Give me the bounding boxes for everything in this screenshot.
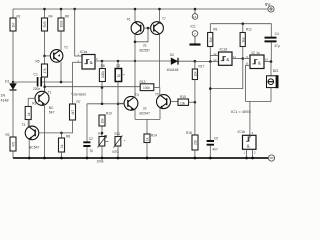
node IC1b pins rail bbox=[245, 157, 248, 160]
resistor R2 bbox=[6, 133, 17, 158]
svg-text:R5: R5 bbox=[36, 60, 40, 64]
svg-text:10k: 10k bbox=[180, 102, 186, 106]
wire mirror base to T6 collector bbox=[135, 28, 148, 42]
resistor R14 bbox=[144, 134, 157, 159]
wire buzzer return to IC1b bbox=[246, 101, 272, 103]
transistor T3 bbox=[25, 120, 61, 159]
svg-text:&: & bbox=[226, 57, 229, 62]
wire T4 base wire bbox=[87, 103, 124, 105]
node T1 collector feedback junction bbox=[43, 85, 46, 88]
svg-text:NTC: NTC bbox=[112, 150, 119, 154]
svg-text:10k: 10k bbox=[101, 118, 105, 124]
resistor R1 bbox=[10, 9, 21, 82]
svg-text:2x: 2x bbox=[143, 44, 147, 48]
op-amp gate IC1a bbox=[73, 50, 99, 69]
svg-text:R10: R10 bbox=[106, 112, 112, 116]
node R16 col T4 base bbox=[101, 103, 104, 106]
diode D2 bbox=[167, 53, 195, 72]
capacitor C4 bbox=[265, 32, 280, 62]
potentiometer P1 bbox=[97, 132, 109, 163]
resistor R10 bbox=[99, 112, 112, 137]
svg-text:C2: C2 bbox=[89, 137, 93, 141]
resistor R6 bbox=[58, 8, 69, 47]
svg-text:C3: C3 bbox=[116, 64, 120, 68]
wire feedback T1 collector to R13 bbox=[45, 86, 141, 88]
node R14 rail bbox=[146, 157, 149, 160]
node R16 feedback junction bbox=[101, 86, 104, 89]
svg-text:100k: 100k bbox=[97, 159, 104, 163]
wire top supply rail bbox=[13, 8, 268, 10]
node R8 on rail bbox=[60, 157, 63, 160]
wire C2 drop bbox=[86, 104, 88, 142]
buzzer BZ1 bbox=[267, 62, 279, 102]
svg-text:R14: R14 bbox=[151, 134, 157, 138]
wire bottom ground rail bbox=[13, 157, 268, 159]
svg-text:&: & bbox=[247, 144, 250, 149]
svg-text:C1: C1 bbox=[34, 73, 38, 77]
wire R9 column down bbox=[209, 62, 211, 141]
svg-text:4k7: 4k7 bbox=[71, 110, 75, 115]
svg-text:R9: R9 bbox=[213, 28, 217, 32]
capacitor C3 electrolytic bbox=[115, 60, 126, 136]
node T3 emitter on rail bbox=[28, 157, 31, 160]
transistor T4 bbox=[118, 96, 138, 119]
resistor R10b bbox=[240, 24, 252, 59]
transistor T1 bbox=[28, 77, 49, 158]
svg-text:C5: C5 bbox=[214, 137, 218, 141]
svg-text:47k: 47k bbox=[43, 68, 47, 74]
svg-text:BC547: BC547 bbox=[29, 146, 39, 150]
svg-text:BC: BC bbox=[49, 106, 54, 110]
svg-text:9V: 9V bbox=[265, 2, 270, 7]
svg-text:T5: T5 bbox=[155, 93, 159, 97]
svg-text:D2: D2 bbox=[170, 53, 174, 57]
gate IC1d bbox=[195, 48, 243, 66]
svg-text:T3: T3 bbox=[22, 123, 26, 127]
node column y88.6 bbox=[209, 87, 212, 90]
resistor R4 bbox=[42, 8, 53, 56]
svg-text:R11: R11 bbox=[115, 132, 121, 136]
svg-text:1k: 1k bbox=[146, 137, 150, 141]
svg-text:1M: 1M bbox=[12, 23, 16, 28]
svg-text:100k: 100k bbox=[101, 71, 105, 78]
svg-text:3M3: 3M3 bbox=[43, 21, 47, 27]
node T2 collector junction bbox=[60, 81, 63, 84]
svg-text:IC1: IC1 bbox=[191, 25, 196, 29]
svg-text:R6: R6 bbox=[65, 15, 69, 19]
node T6 collector diode junction bbox=[134, 41, 137, 44]
resistor R18 bbox=[186, 102, 198, 158]
node T6 T7 base junction bbox=[147, 27, 150, 30]
svg-text:1N: 1N bbox=[1, 94, 6, 98]
node P1 rail bbox=[101, 157, 104, 160]
wire supply feed R9 R10 C4 bbox=[210, 24, 271, 37]
node C2 rail bbox=[86, 157, 89, 160]
svg-text:14: 14 bbox=[193, 15, 197, 19]
svg-text:C4: C4 bbox=[275, 32, 279, 36]
node 0V terminal bbox=[268, 155, 274, 161]
svg-text:R12: R12 bbox=[246, 28, 252, 32]
resistor R7 bbox=[62, 62, 81, 133]
svg-text:R15: R15 bbox=[180, 95, 186, 99]
svg-text:R17: R17 bbox=[199, 65, 205, 69]
svg-text:47µ: 47µ bbox=[274, 44, 280, 48]
resistor R13 bbox=[140, 80, 160, 91]
capacitor C1 bbox=[13, 73, 73, 92]
svg-text:22k: 22k bbox=[194, 139, 198, 145]
svg-text:BC547: BC547 bbox=[140, 112, 150, 116]
node R10 top bbox=[242, 22, 245, 25]
svg-text:12: 12 bbox=[213, 52, 217, 56]
svg-text:4148: 4148 bbox=[1, 99, 9, 103]
svg-text:P1: P1 bbox=[98, 132, 102, 136]
node T1 emitter on rail bbox=[43, 157, 46, 160]
svg-text:IC1d: IC1d bbox=[220, 48, 228, 52]
svg-text:470: 470 bbox=[12, 141, 16, 147]
resistor R17 bbox=[192, 61, 204, 102]
transistor T6 bbox=[131, 9, 148, 97]
diode D1 bbox=[1, 80, 17, 138]
svg-text:R2: R2 bbox=[6, 133, 10, 137]
svg-text:BZ1: BZ1 bbox=[273, 69, 279, 73]
node 9V terminal bbox=[268, 6, 274, 12]
wire IC1a output net bbox=[95, 60, 171, 62]
wire T1 base to R3 bbox=[27, 98, 29, 106]
svg-text:T2: T2 bbox=[64, 46, 68, 50]
svg-text:547: 547 bbox=[49, 111, 55, 115]
node output feedback junction bbox=[242, 57, 245, 60]
wire T4 T5 emitters bbox=[135, 119, 160, 133]
svg-text:T6: T6 bbox=[127, 18, 131, 22]
resistor R5 bbox=[36, 55, 48, 92]
node pin13 junction bbox=[209, 60, 212, 63]
svg-text:1k: 1k bbox=[60, 144, 64, 148]
resistor R8 bbox=[59, 133, 71, 158]
svg-text:13: 13 bbox=[213, 58, 217, 62]
node R18 rail bbox=[194, 157, 197, 160]
gate IC1b bbox=[238, 130, 257, 158]
svg-text:BC557: BC557 bbox=[140, 49, 150, 53]
svg-text:1N4148: 1N4148 bbox=[167, 68, 179, 72]
svg-text:IC1 = 4093: IC1 = 4093 bbox=[231, 109, 251, 114]
svg-text:R8: R8 bbox=[66, 135, 70, 139]
svg-text:10: 10 bbox=[265, 57, 269, 61]
node T6 column signal wire junction bbox=[134, 60, 136, 62]
resistor R15 bbox=[178, 95, 195, 106]
svg-text:3k9: 3k9 bbox=[209, 37, 213, 42]
svg-text:1k: 1k bbox=[27, 112, 31, 116]
svg-text:11: 11 bbox=[233, 55, 236, 59]
gate IC1c bbox=[243, 51, 271, 101]
resistor R9 bbox=[208, 24, 218, 62]
resistor R3 bbox=[25, 102, 36, 127]
transistor T7 bbox=[148, 9, 163, 87]
node R11 rail bbox=[117, 157, 120, 160]
node C3 T4 base junction bbox=[117, 103, 120, 106]
svg-text:&: & bbox=[258, 60, 261, 65]
node R7R8 junction bbox=[60, 132, 63, 135]
node IC1c out C4 bbox=[270, 60, 273, 63]
transistor T5 bbox=[157, 87, 179, 119]
capacitor C2 bbox=[83, 137, 93, 158]
svg-text:R4: R4 bbox=[49, 15, 53, 19]
svg-text:1µ: 1µ bbox=[90, 149, 94, 153]
thermistor R11 bbox=[112, 132, 126, 158]
capacitor C5 bbox=[207, 137, 219, 159]
node R17 R15 junction bbox=[194, 101, 197, 104]
svg-text:10k: 10k bbox=[194, 71, 198, 77]
wire output feedback to column bbox=[210, 59, 243, 89]
svg-text:T1: T1 bbox=[48, 91, 52, 95]
svg-text:IC1b: IC1b bbox=[238, 130, 246, 134]
svg-text:T7: T7 bbox=[162, 17, 166, 21]
svg-text:1µ: 1µ bbox=[117, 74, 121, 78]
svg-text:T4: T4 bbox=[135, 93, 139, 97]
svg-text:2x: 2x bbox=[143, 107, 147, 111]
svg-text:* zie tekst: * zie tekst bbox=[71, 93, 86, 97]
wire rail drop to IC1a pin1 bbox=[73, 8, 82, 56]
svg-text:&: & bbox=[90, 60, 93, 65]
svg-text:R1: R1 bbox=[17, 15, 21, 19]
svg-text:3k9: 3k9 bbox=[241, 37, 245, 42]
svg-text:4n7: 4n7 bbox=[213, 148, 219, 152]
svg-text:R3: R3 bbox=[32, 102, 36, 106]
svg-text:100k: 100k bbox=[143, 86, 150, 90]
svg-text:R8: R8 bbox=[101, 64, 105, 68]
svg-text:R7: R7 bbox=[77, 100, 81, 104]
svg-text:100k: 100k bbox=[60, 20, 64, 27]
node D2 R17 junction bbox=[194, 60, 197, 63]
node C5 rail bbox=[209, 157, 212, 160]
transistor T2 bbox=[45, 47, 63, 82]
node P1 top bbox=[101, 132, 104, 135]
svg-text:220n: 220n bbox=[33, 87, 40, 91]
wire IC1b output riser bbox=[249, 102, 251, 136]
svg-text:R13: R13 bbox=[140, 80, 146, 84]
resistor R16 bbox=[99, 60, 105, 104]
svg-text:R18: R18 bbox=[186, 131, 192, 135]
svg-text:IC1a: IC1a bbox=[80, 50, 88, 54]
power symbol IC1 pin14 pin7 bbox=[190, 9, 201, 45]
svg-text:D1: D1 bbox=[5, 80, 9, 84]
